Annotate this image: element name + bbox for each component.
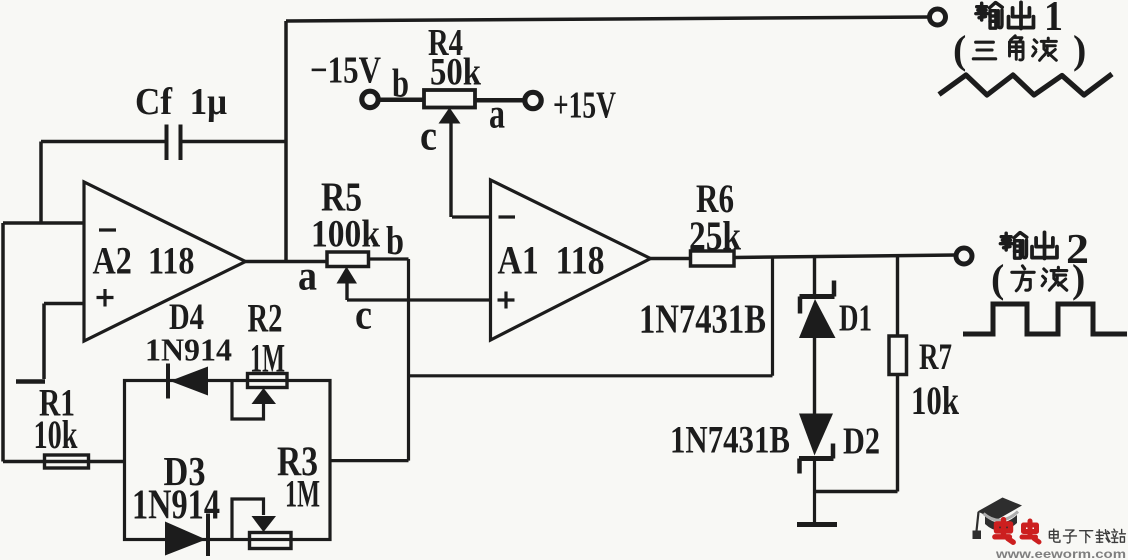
svg-text:Cf 1μ: Cf 1μ [135,81,227,123]
svg-text:1N7431B: 1N7431B [670,419,790,462]
svg-text:): ) [1072,256,1085,301]
svg-text:R2: R2 [248,296,283,341]
svg-text:10k: 10k [34,412,79,457]
svg-text:−15V: −15V [310,50,381,92]
svg-text:a: a [489,92,505,138]
svg-text:25k: 25k [689,213,741,259]
svg-text:10k: 10k [911,378,960,423]
svg-text:+15V: +15V [553,85,616,127]
svg-text:b: b [386,218,404,263]
svg-text:c: c [355,293,372,339]
svg-text:c: c [420,114,437,160]
svg-text:A2 118: A2 118 [93,240,195,283]
svg-text:A1 118: A1 118 [498,238,605,283]
svg-text:100k: 100k [311,213,380,256]
svg-text:1N914: 1N914 [145,332,232,368]
svg-text:b: b [392,61,409,106]
svg-text:1M: 1M [285,473,320,516]
svg-text:a: a [298,254,317,300]
svg-text:(: ( [991,256,1004,301]
svg-text:1M: 1M [250,336,285,381]
svg-text:1: 1 [1044,0,1063,40]
svg-text:D2: D2 [843,421,880,463]
svg-text:(: ( [953,27,966,72]
svg-text:1N7431B: 1N7431B [639,296,766,342]
svg-text:): ) [1073,27,1086,72]
svg-text:1N914: 1N914 [132,483,220,529]
svg-text:www.eeworm.com: www.eeworm.com [995,549,1126,560]
svg-text:R7: R7 [919,337,952,378]
svg-text:D1: D1 [839,298,872,340]
svg-text:50k: 50k [430,51,481,94]
